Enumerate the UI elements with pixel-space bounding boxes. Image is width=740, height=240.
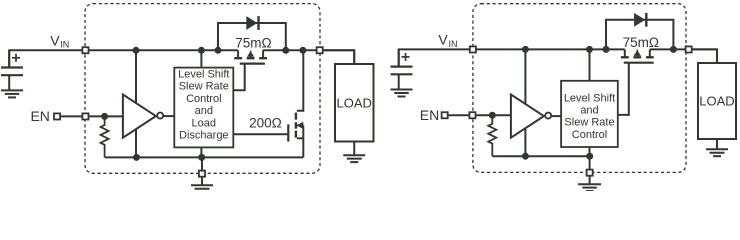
svg-text:Level Shift: Level Shift (564, 92, 615, 104)
svg-text:75mΩ: 75mΩ (235, 35, 271, 50)
svg-text:LOAD: LOAD (699, 94, 734, 109)
svg-text:and: and (195, 105, 213, 117)
svg-text:Level Shift: Level Shift (178, 69, 229, 81)
svg-text:IN: IN (449, 39, 458, 49)
svg-text:Slew Rate: Slew Rate (179, 81, 229, 93)
svg-text:Slew Rate: Slew Rate (564, 117, 614, 129)
svg-text:LOAD: LOAD (337, 95, 372, 110)
svg-text:Control: Control (186, 93, 221, 105)
svg-text:EN: EN (420, 107, 439, 123)
svg-text:and: and (580, 105, 598, 117)
svg-text:V: V (438, 32, 448, 48)
svg-text:IN: IN (60, 40, 69, 50)
svg-text:Control: Control (572, 129, 607, 141)
svg-text:Load: Load (192, 117, 216, 129)
svg-text:EN: EN (30, 108, 49, 124)
svg-text:V: V (50, 32, 60, 48)
svg-text:Discharge: Discharge (179, 130, 229, 142)
svg-text:75mΩ: 75mΩ (623, 35, 659, 50)
svg-text:200Ω: 200Ω (249, 115, 282, 130)
